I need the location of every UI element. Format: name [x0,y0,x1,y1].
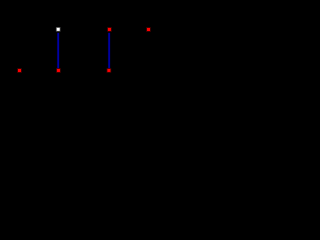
node N5 (isolated red pin marker, lower left) [17,68,22,73]
node N1 (white endpoint marker at top of wire W1) [56,27,61,32]
node N2 (red endpoint marker at bottom of wire W1) [56,68,61,73]
node N6 (isolated red pin marker, upper right) [146,27,151,32]
node N4 (red endpoint marker at bottom of wire W2) [107,68,112,73]
node N3 (red endpoint marker at top of wire W2) [107,27,112,32]
wire W1 (vertical blue net segment, left column) [57,33,59,69]
wire W2 (vertical blue net segment, right column) [108,33,110,69]
